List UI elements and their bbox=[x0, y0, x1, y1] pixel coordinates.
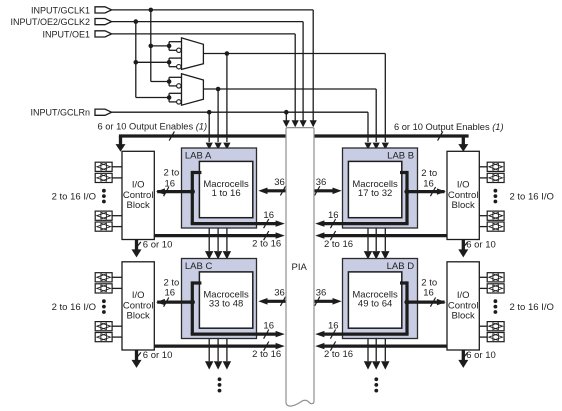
junction on bus bbox=[404, 189, 409, 194]
wire control line below LAB D at x=385.3 bbox=[384, 339, 386, 362]
svg-text:16: 16 bbox=[328, 320, 339, 331]
arrow GCLRn into PIA bbox=[283, 120, 290, 127]
mux U2 (OE select mux lower) bbox=[182, 74, 204, 106]
I/O cell right row B #4 bbox=[487, 222, 504, 231]
wire control line LAB A to LAB C at x=218.1 bbox=[217, 228, 219, 251]
wire control line below LAB D at x=368.0 bbox=[367, 339, 369, 362]
mux U1 (OE select mux upper) bbox=[182, 38, 204, 70]
junction GCLK1 row bbox=[149, 8, 154, 13]
wire GCLK1 drop to muxes bbox=[150, 10, 152, 82]
svg-text:2 to 16 I/O: 2 to 16 I/O bbox=[510, 302, 554, 313]
svg-text:Block: Block bbox=[127, 200, 150, 211]
wire control line down into LAB A at x=209.2 bbox=[208, 112, 210, 142]
I/O cell right row B #3 bbox=[487, 211, 504, 220]
input pin INPUT/OE2/GCLK2 bbox=[95, 19, 112, 25]
bus bottom to PIA (16) bbox=[324, 222, 409, 225]
svg-text:LAB C: LAB C bbox=[185, 261, 213, 272]
LAB B macrocells inner box bbox=[348, 161, 401, 217]
LAB A block bbox=[182, 148, 257, 228]
arrow into LAB C top bbox=[223, 251, 231, 259]
wire control line down into LAB B at x=368.0 bbox=[367, 112, 369, 142]
wire I/O cell to block bbox=[479, 226, 487, 228]
junction OE2 to mux1 bbox=[134, 60, 139, 65]
6 or 10 arrow left I/O A to I/O C bbox=[135, 240, 138, 251]
junction GCLK1 to mux1 bbox=[149, 44, 154, 49]
svg-text:2 to 16: 2 to 16 bbox=[252, 238, 281, 249]
junction on bus bbox=[404, 300, 409, 305]
I/O cell right row D #3 bbox=[487, 322, 504, 331]
tick on right OE bar bbox=[438, 131, 443, 140]
LAB A macrocells inner box bbox=[199, 161, 252, 217]
bus stub from macrocells bbox=[400, 281, 407, 284]
svg-text:1 to 16: 1 to 16 bbox=[212, 188, 241, 199]
6 or 10 arrow below left I/O C bbox=[135, 350, 138, 361]
wire I/O cell to block bbox=[112, 336, 122, 338]
I/O cell left row C #2 bbox=[95, 284, 112, 293]
bus bottom to PIA (16) bbox=[191, 333, 276, 336]
bus vertical inside LAB bbox=[191, 171, 194, 224]
junction GCLRn to LAB A bbox=[207, 110, 212, 115]
mux2 input 1 (stub, dot, inverter bubble) bbox=[168, 77, 170, 86]
mux1 input 2 (stub, dot, inverter bubble) bbox=[168, 58, 170, 67]
svg-text:LAB B: LAB B bbox=[387, 150, 414, 161]
tick on 2 to 16 branch bbox=[164, 187, 169, 196]
wire control line down into LAB B at x=385.3 bbox=[384, 54, 386, 143]
arrow into right I/O block top bbox=[458, 144, 468, 152]
wire control line down into LAB B at x=376.2 bbox=[375, 89, 377, 142]
wire control line below LAB C at x=218.1 bbox=[217, 339, 219, 362]
wire I/O cell to block bbox=[112, 177, 122, 179]
wire control line below LAB C at x=209.2 bbox=[208, 339, 210, 362]
wire I/O cell to block bbox=[112, 166, 122, 168]
wire I/O cell to block bbox=[479, 177, 487, 179]
tick on 2 to 16 branch bbox=[164, 298, 169, 307]
arrow into LAB A top bbox=[206, 143, 213, 150]
svg-text:2 to 16 I/O: 2 to 16 I/O bbox=[52, 302, 96, 313]
LAB D block bbox=[343, 259, 418, 339]
wire control line LAB B to LAB D at x=385.3 bbox=[384, 228, 386, 251]
bus stub from macrocells bbox=[400, 171, 407, 174]
wire control line LAB A to LAB C at x=226.9 bbox=[226, 228, 228, 251]
LAB C block bbox=[182, 259, 257, 339]
LAB B block bbox=[343, 148, 418, 228]
LAB C macrocells inner box bbox=[199, 272, 252, 328]
36 bus PIA to LAB C bbox=[267, 300, 286, 303]
svg-text:6 or 10 Output Enables (1): 6 or 10 Output Enables (1) bbox=[98, 121, 208, 131]
svg-text:2 to 16: 2 to 16 bbox=[252, 349, 281, 360]
svg-text:16: 16 bbox=[328, 210, 339, 221]
wire control line down into LAB A at x=218.1 bbox=[217, 89, 219, 142]
arrow into LAB B top bbox=[373, 143, 380, 150]
svg-text:33 to 48: 33 to 48 bbox=[209, 299, 243, 310]
wire mux2 output row bbox=[203, 88, 376, 90]
I/O cell left row A #1 bbox=[95, 162, 112, 171]
36 bus PIA to LAB D bbox=[314, 300, 333, 303]
tick on 2 to 16 branch bbox=[430, 298, 435, 307]
bus bottom to PIA (16) bbox=[191, 222, 276, 225]
wire I/O cell to block bbox=[479, 287, 487, 289]
wire control line below LAB C at x=226.9 bbox=[226, 339, 228, 362]
wire control line LAB B to LAB D at x=368.0 bbox=[367, 228, 369, 251]
I/O cell left row A #3 bbox=[95, 211, 112, 220]
LAB D macrocells inner box bbox=[348, 272, 401, 328]
input pin INPUT/GCLK1 bbox=[95, 7, 112, 13]
wire I/O cell to block bbox=[112, 215, 122, 217]
svg-text:INPUT/OE1: INPUT/OE1 bbox=[42, 29, 90, 39]
ellipsis dots left row C bbox=[102, 299, 106, 314]
svg-text:6 or 10 Output Enables (1): 6 or 10 Output Enables (1) bbox=[394, 122, 504, 132]
bus branch to I/O control block (2 to 16) bbox=[157, 301, 192, 304]
arrow into LAB B top bbox=[364, 143, 371, 150]
svg-text:17 to 32: 17 to 32 bbox=[358, 188, 392, 199]
bus vertical inside LAB bbox=[405, 281, 408, 334]
junction mux2 output to LAB A bbox=[216, 87, 221, 92]
I/O cell right row D #2 bbox=[487, 284, 504, 293]
svg-text:36: 36 bbox=[274, 177, 285, 188]
svg-text:2 to 16 I/O: 2 to 16 I/O bbox=[52, 192, 96, 203]
svg-text:PIA: PIA bbox=[292, 262, 308, 273]
OE bus bar right bbox=[314, 134, 469, 137]
arrow into LAB C top bbox=[214, 251, 222, 259]
arrow below LAB C bbox=[205, 361, 213, 369]
wire I/O cell to block bbox=[479, 166, 487, 168]
wire GCLRn row bbox=[112, 111, 368, 113]
right I/O control block (row D) bbox=[447, 262, 479, 350]
svg-text:Block: Block bbox=[452, 200, 475, 211]
36 bus PIA to LAB B bbox=[314, 189, 333, 192]
svg-text:16: 16 bbox=[165, 288, 176, 299]
tick on left OE bar bbox=[169, 131, 174, 140]
arrow into LAB B top bbox=[382, 143, 389, 150]
svg-text:LAB D: LAB D bbox=[387, 261, 415, 272]
svg-text:16: 16 bbox=[165, 178, 176, 189]
I/O cell right row D #1 bbox=[487, 273, 504, 282]
junction on bus bbox=[190, 189, 195, 194]
wire control line LAB B to LAB D at x=376.2 bbox=[375, 228, 377, 251]
wire OE bar drop into left I/O block bbox=[119, 136, 122, 145]
ellipsis dots right row D bbox=[494, 299, 498, 314]
arrow into LAB C top bbox=[205, 251, 213, 259]
right I/O control block (row B) bbox=[447, 151, 479, 239]
I/O cell right row B #1 bbox=[487, 162, 504, 171]
arrow into left I/O block top bbox=[116, 144, 126, 152]
svg-text:2 to 16: 2 to 16 bbox=[324, 239, 353, 250]
6 or 10 arrow right I/O B to I/O D bbox=[462, 240, 465, 251]
I/O cell right row B #2 bbox=[487, 173, 504, 182]
wire I/O cell to block bbox=[112, 287, 122, 289]
svg-text:16: 16 bbox=[423, 288, 434, 299]
ellipsis dots right row B bbox=[494, 189, 498, 204]
tick on 2 to 16 branch bbox=[430, 187, 435, 196]
svg-text:36: 36 bbox=[316, 177, 327, 188]
svg-text:2 to: 2 to bbox=[421, 168, 437, 179]
arrow below LAB D bbox=[364, 361, 372, 369]
input pin INPUT/OE1 bbox=[95, 31, 112, 37]
tick on 16 line bbox=[330, 219, 335, 228]
wire mux1 output row bbox=[203, 53, 385, 55]
svg-text:16: 16 bbox=[263, 210, 274, 221]
2 to 16 bus right row B to PIA bbox=[324, 234, 447, 237]
bus vertical inside LAB bbox=[191, 281, 194, 334]
junction on bus bbox=[190, 300, 195, 305]
2 to 16 bus left row C to PIA bbox=[154, 345, 276, 348]
svg-text:INPUT/OE2/GCLK2: INPUT/OE2/GCLK2 bbox=[10, 17, 90, 27]
arrow OE1 into PIA bbox=[292, 120, 299, 127]
junction GCLRn to PIA bbox=[284, 110, 289, 115]
svg-text:6 or 10: 6 or 10 bbox=[143, 240, 173, 251]
svg-text:2 to: 2 to bbox=[163, 167, 179, 178]
tick on 16 line bbox=[330, 330, 335, 339]
wire GCLRn drop to PIA bbox=[285, 112, 287, 121]
svg-text:49 to 64: 49 to 64 bbox=[358, 299, 392, 310]
left I/O control block (row A) bbox=[122, 151, 154, 239]
svg-text:6 or 10: 6 or 10 bbox=[143, 350, 173, 361]
bus bottom to PIA (16) bbox=[324, 333, 409, 336]
svg-text:INPUT/GCLK1: INPUT/GCLK1 bbox=[31, 5, 90, 15]
svg-text:Block: Block bbox=[127, 311, 150, 322]
wire GCLK1 bend down to PIA bbox=[312, 10, 314, 122]
svg-text:INPUT/GCLRn: INPUT/GCLRn bbox=[30, 108, 90, 118]
wire OE1 row bbox=[112, 33, 296, 35]
svg-text:2 to 16 I/O: 2 to 16 I/O bbox=[510, 192, 554, 203]
arrow below LAB C bbox=[223, 361, 231, 369]
arrow OE2/GCLK2 into PIA bbox=[300, 120, 307, 127]
svg-text:6 or 10: 6 or 10 bbox=[466, 350, 496, 361]
svg-text:2 to 16: 2 to 16 bbox=[324, 349, 353, 360]
wire control line LAB A to LAB C at x=209.2 bbox=[208, 228, 210, 251]
arrow into LAB D top bbox=[372, 251, 380, 259]
wire I/O cell to block bbox=[479, 276, 487, 278]
I/O cell left row C #3 bbox=[95, 322, 112, 331]
I/O cell right row D #4 bbox=[487, 333, 504, 342]
arrow into LAB A top bbox=[215, 143, 222, 150]
wire I/O cell to block bbox=[112, 226, 122, 228]
mux1 input 1 (stub, dot, inverter bubble) bbox=[168, 42, 170, 51]
arrow below LAB D bbox=[372, 361, 380, 369]
2 to 16 bus left row A to PIA bbox=[154, 234, 276, 237]
left I/O control block (row C) bbox=[122, 262, 154, 350]
arrow below LAB C bbox=[214, 361, 222, 369]
arrow into LAB A top bbox=[223, 143, 230, 150]
wire GCLK1 to mux1 input bbox=[151, 45, 169, 47]
svg-text:6 or 10: 6 or 10 bbox=[466, 240, 496, 251]
2 to 16 bus right row D to PIA bbox=[324, 345, 447, 348]
36 bus PIA to LAB A bbox=[267, 189, 286, 192]
wire OE2 drop to muxes bbox=[135, 22, 137, 98]
input pin INPUT/GCLRn bbox=[95, 109, 112, 115]
OE bus bar left (6 or 10 Output Enables) bbox=[119, 134, 286, 137]
I/O cell left row C #4 bbox=[95, 333, 112, 342]
arrow into LAB D top bbox=[381, 251, 389, 259]
bus branch to I/O control block (2 to 16) bbox=[157, 190, 192, 193]
bus vertical inside LAB bbox=[405, 171, 408, 224]
wire I/O cell to block bbox=[479, 336, 487, 338]
svg-text:16: 16 bbox=[423, 178, 434, 189]
wire I/O cell to block bbox=[479, 215, 487, 217]
bus stub from macrocells bbox=[192, 171, 201, 174]
svg-text:36: 36 bbox=[316, 288, 327, 299]
6 or 10 arrow below right I/O D bbox=[462, 350, 465, 361]
junction OE2 row bbox=[134, 19, 139, 24]
wire OE1 bend down to PIA bbox=[294, 34, 296, 122]
PIA interconnect bar bbox=[286, 128, 314, 406]
arrow into LAB D top bbox=[364, 251, 372, 259]
wire GCLK1 row bbox=[112, 9, 314, 11]
svg-text:Block: Block bbox=[452, 311, 475, 322]
wire OE2/GCLK2 bend down to PIA bbox=[302, 22, 304, 122]
wire I/O cell to block bbox=[479, 325, 487, 327]
wire I/O cell to block bbox=[112, 276, 122, 278]
svg-text:16: 16 bbox=[263, 320, 274, 331]
wire control line below LAB D at x=376.2 bbox=[375, 339, 377, 362]
wire OE2/GCLK2 row bbox=[112, 21, 304, 23]
wire OE2 to mux1 input bbox=[136, 61, 169, 63]
ellipsis dots below LAB C bbox=[218, 377, 222, 392]
tick on 16 line bbox=[264, 219, 269, 228]
bus branch to I/O control block (2 to 16) bbox=[407, 190, 445, 193]
svg-text:36: 36 bbox=[274, 288, 285, 299]
arrow GCLK1 into PIA bbox=[310, 120, 317, 127]
junction mux1 output to LAB A bbox=[225, 51, 230, 56]
I/O cell left row A #2 bbox=[95, 173, 112, 182]
ellipsis dots left row A bbox=[102, 189, 106, 204]
wire OE bar drop into right I/O block bbox=[462, 136, 465, 145]
I/O cell left row C #1 bbox=[95, 273, 112, 282]
svg-text:LAB A: LAB A bbox=[185, 150, 212, 161]
mux2 input 2 (stub, dot, inverter bubble) bbox=[168, 93, 170, 102]
I/O cell left row A #4 bbox=[95, 222, 112, 231]
wire control line down into LAB A at x=226.9 bbox=[226, 54, 228, 143]
bus stub from macrocells bbox=[192, 281, 201, 284]
bus branch to I/O control block (2 to 16) bbox=[407, 301, 445, 304]
wire I/O cell to block bbox=[112, 325, 122, 327]
tick on 16 line bbox=[264, 330, 269, 339]
arrow below LAB D bbox=[381, 361, 389, 369]
ellipsis dots below LAB D bbox=[374, 377, 378, 392]
